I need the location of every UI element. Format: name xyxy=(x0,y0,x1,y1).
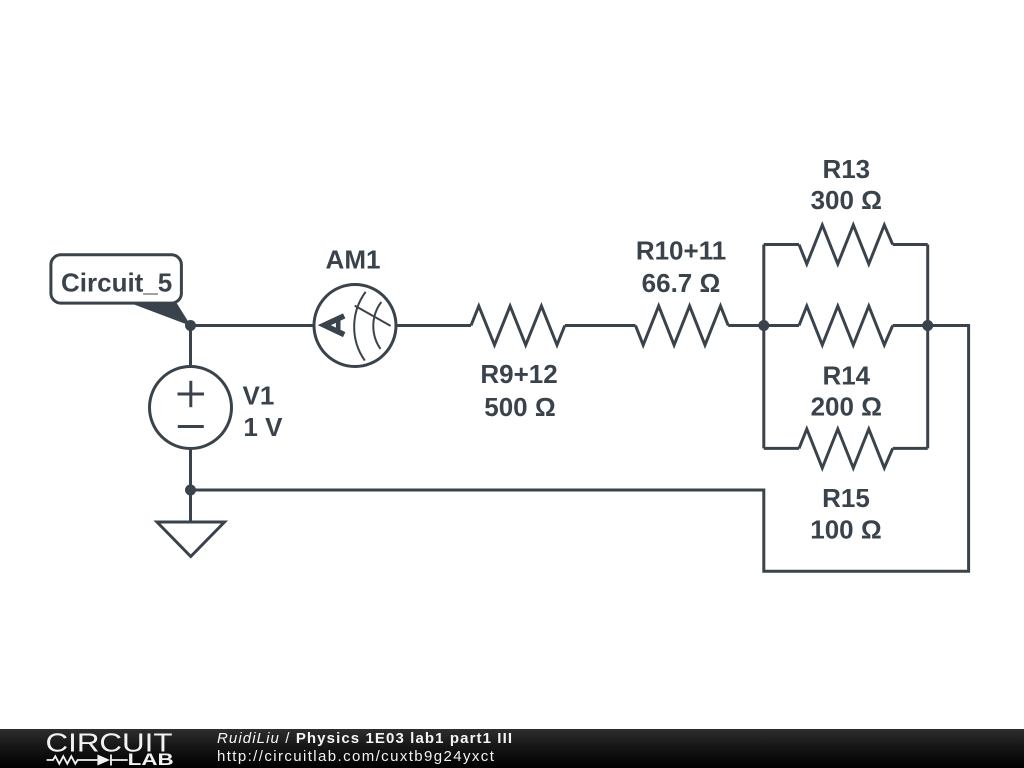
svg-text:500 Ω: 500 Ω xyxy=(484,392,555,422)
svg-text:R14: R14 xyxy=(822,361,870,391)
svg-text:1 V: 1 V xyxy=(243,412,283,442)
svg-text:Circuit_5: Circuit_5 xyxy=(61,267,172,297)
svg-text:66.7 Ω: 66.7 Ω xyxy=(642,268,721,298)
svg-text:R15: R15 xyxy=(822,483,870,513)
svg-text:V1: V1 xyxy=(243,381,275,411)
svg-text:R10+11: R10+11 xyxy=(636,235,726,265)
svg-text:AM1: AM1 xyxy=(326,245,381,275)
svg-text:LAB: LAB xyxy=(128,750,174,768)
svg-text:100 Ω: 100 Ω xyxy=(810,515,881,545)
svg-text:300 Ω: 300 Ω xyxy=(811,185,882,215)
svg-text:200 Ω: 200 Ω xyxy=(811,392,882,422)
svg-text:R13: R13 xyxy=(822,154,870,184)
svg-text:R9+12: R9+12 xyxy=(480,359,557,389)
